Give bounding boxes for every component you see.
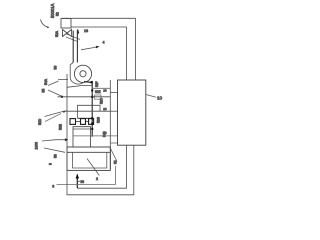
pipe (blower outlet diagonal) <box>67 86 92 88</box>
svg-text:50001A: 50001A <box>50 3 55 18</box>
svg-text:56: 56 <box>54 66 58 70</box>
duct from valve <box>66 34 80 42</box>
leader arrow into y=111 line <box>45 111 64 116</box>
pipe (left long vertical) <box>66 74 68 147</box>
blower hub circle <box>80 71 86 77</box>
wire connectors between blocks <box>76 121 89 123</box>
box 58 (bottom, outer) <box>67 147 110 170</box>
wire (outlet to node) <box>84 81 92 84</box>
svg-text:16: 16 <box>103 131 107 135</box>
svg-text:4: 4 <box>103 41 105 45</box>
svg-text:55: 55 <box>42 89 46 93</box>
stub to radiator y=92.6 <box>110 92 118 94</box>
leader inside box to label 2 <box>87 159 99 176</box>
node dots on middle vertical <box>91 89 93 91</box>
leader arrow to tank <box>41 20 50 28</box>
leader 52D second <box>45 114 61 122</box>
valve block b <box>81 119 86 125</box>
leader arrow (52D cluster to duct) <box>42 140 65 141</box>
pipe (vertical pair to blower) <box>73 30 77 63</box>
node (junction at blower outlet) <box>90 81 93 84</box>
small box 52E <box>95 95 102 99</box>
radiator 10 (tall rectangle) <box>118 80 146 145</box>
svg-text:52A: 52A <box>55 30 59 37</box>
stub to radiator y=111 <box>110 110 118 112</box>
valve block a <box>70 119 76 125</box>
svg-text:56: 56 <box>81 180 85 184</box>
flow arrow (dark) on pipe <box>77 29 79 34</box>
valve V1 (bowtie below tank) <box>63 30 72 37</box>
box inner bottom <box>73 152 107 168</box>
svg-text:54A: 54A <box>44 78 48 85</box>
svg-text:3: 3 <box>52 184 54 188</box>
svg-text:52D: 52D <box>38 118 42 125</box>
leader to 55b <box>111 149 118 162</box>
arrow pipe into box bottom <box>76 175 78 189</box>
svg-text:18: 18 <box>84 29 88 33</box>
svg-text:58: 58 <box>54 154 58 158</box>
duct (below valve row) <box>73 127 91 147</box>
wire y=111.2 <box>63 110 110 112</box>
svg-text:52F: 52F <box>95 81 99 87</box>
stub y=143 <box>110 142 118 144</box>
svg-text:16: 16 <box>103 89 107 93</box>
svg-text:55: 55 <box>114 160 118 164</box>
svg-text:52G: 52G <box>97 116 101 123</box>
pipe bottom middle L <box>77 145 126 188</box>
leader to label 10 <box>146 95 156 98</box>
pipe (middle vertical main) <box>91 82 93 137</box>
svg-text:8: 8 <box>49 163 53 165</box>
leader 54A <box>48 81 59 86</box>
blower 54 (volute casing) <box>70 63 83 85</box>
svg-text:16: 16 <box>103 107 107 111</box>
box inner top line <box>67 151 110 153</box>
blower outer circle <box>74 65 91 82</box>
leader stub to casing <box>58 79 68 81</box>
node on y=97 line <box>61 96 63 98</box>
svg-text:52: 52 <box>56 12 60 16</box>
wire y=129 <box>73 128 92 130</box>
svg-text:10: 10 <box>157 96 163 101</box>
pipe (top outer) <box>62 18 135 80</box>
pipe bottom outer L <box>67 145 134 195</box>
pipe (top inner) <box>71 27 126 80</box>
leader to label 4 <box>81 47 97 50</box>
svg-text:2: 2 <box>96 177 98 181</box>
svg-text:52E: 52E <box>95 90 101 94</box>
svg-text:1000: 1000 <box>35 142 39 150</box>
wire y=135.8 to radiator stub <box>73 135 118 137</box>
wire y=88 <box>92 87 110 89</box>
pipe bottom inner L <box>57 166 116 184</box>
wire y=118.3 <box>78 117 92 119</box>
pipe (vertical x=110) <box>109 80 111 169</box>
svg-text:52B: 52B <box>59 123 63 130</box>
svg-text:52C: 52C <box>100 97 104 104</box>
wire y=105.6 with corner <box>78 105 101 118</box>
valve block c <box>89 119 94 125</box>
leader to box top <box>44 148 65 152</box>
wire y=96.8 long <box>58 96 111 98</box>
tank 52 <box>61 19 71 29</box>
